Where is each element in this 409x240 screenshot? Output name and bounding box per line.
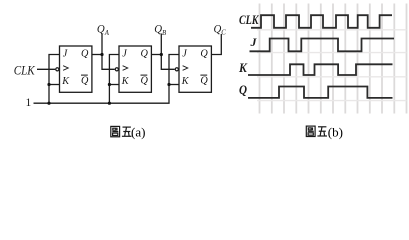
svg-text:J: J [122,49,127,60]
svg-text:CLK: CLK [14,63,36,77]
svg-text:Q: Q [141,76,149,87]
svg-text:Q: Q [200,76,208,87]
svg-text:Q: Q [239,83,247,97]
svg-text:K: K [181,76,190,87]
svg-text:B: B [162,30,166,37]
svg-text:(a): (a) [131,125,145,140]
svg-text:(b): (b) [328,124,343,139]
svg-text:Q: Q [200,49,208,60]
svg-text:Q: Q [141,49,149,60]
svg-text:Q: Q [81,76,89,87]
svg-text:CLK: CLK [239,13,260,27]
svg-text:K: K [61,76,70,87]
svg-text:A: A [104,30,110,37]
svg-text:Q: Q [81,49,89,60]
svg-text:1: 1 [26,97,32,109]
svg-text:C: C [221,29,226,36]
svg-text:J: J [250,35,258,49]
svg-text:K: K [121,76,130,87]
svg-text:K: K [238,61,248,75]
svg-text:J: J [63,49,68,60]
svg-text:J: J [182,49,187,60]
